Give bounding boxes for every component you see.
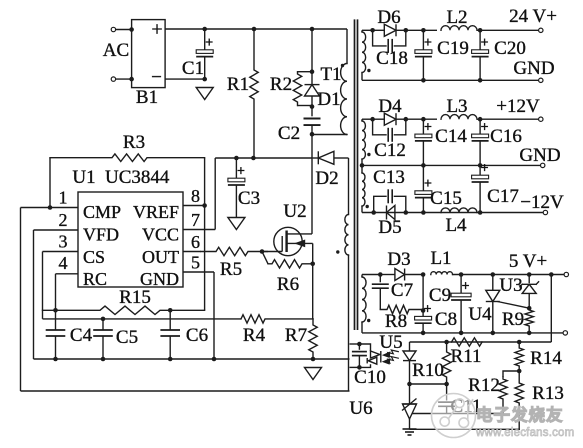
resistor R5 <box>201 247 262 255</box>
wire feedback drop <box>550 275 552 343</box>
node R15 C6 <box>168 308 173 313</box>
capacitor C17 <box>479 165 481 175</box>
svg-text:D5: D5 <box>378 217 401 238</box>
capacitor C3 <box>235 158 237 178</box>
svg-text:5 V+: 5 V+ <box>509 251 547 272</box>
watermark logo <box>432 394 476 438</box>
svg-text:C18: C18 <box>376 48 408 69</box>
svg-text:6: 6 <box>191 232 200 252</box>
svg-text:D2: D2 <box>315 168 338 189</box>
node rail C4 <box>53 357 58 362</box>
svg-text:C1: C1 <box>182 58 204 79</box>
svg-text:L3: L3 <box>446 96 467 117</box>
AC input terminal bottom <box>111 77 115 81</box>
svg-text:U1: U1 <box>72 167 95 188</box>
capacitor C9 <box>460 275 462 294</box>
T1 sec12 winding A <box>361 119 363 121</box>
node R8 right <box>421 308 426 313</box>
svg-text:C6: C6 <box>186 325 208 346</box>
svg-text:24 V+: 24 V+ <box>509 6 557 27</box>
diode D1 <box>311 72 313 85</box>
wire primary bottom <box>312 134 347 136</box>
node R6 right <box>310 262 315 267</box>
T1 sec12 phase dot A <box>367 153 370 156</box>
wire R3 left leg <box>49 158 51 208</box>
svg-text:+: + <box>151 19 162 41</box>
wire CMP feedback <box>21 390 350 392</box>
wire top rail <box>165 28 347 30</box>
inductor L3 <box>441 115 477 120</box>
capacitor C5 <box>102 319 104 330</box>
wire pin8 <box>183 205 205 207</box>
wire pin3 <box>43 251 79 253</box>
resistor R13 <box>515 371 523 429</box>
diode D4 <box>373 118 385 120</box>
svg-text:C2: C2 <box>278 123 300 144</box>
svg-text:C13: C13 <box>373 167 405 188</box>
svg-text:U6: U6 <box>349 398 372 419</box>
watermark text <box>475 405 574 440</box>
wire 24V rail b <box>477 29 539 31</box>
resistor R10 <box>442 342 450 384</box>
svg-text:R9: R9 <box>502 309 524 330</box>
node clamp bottom <box>310 132 315 137</box>
svg-text:C20: C20 <box>494 38 526 59</box>
T1 primary winding <box>346 29 348 64</box>
node top rail clamp <box>310 27 315 32</box>
svg-text:+: + <box>481 119 489 134</box>
svg-text:VCC: VCC <box>142 225 179 245</box>
T1 aux winding <box>345 215 349 256</box>
svg-text:R7: R7 <box>285 325 307 346</box>
svg-text:+12V: +12V <box>496 96 540 117</box>
resistor R4 <box>241 315 313 323</box>
transistor U2 <box>274 227 302 255</box>
diode D5 <box>386 206 388 220</box>
wire VCC line <box>215 157 313 159</box>
svg-text:GND: GND <box>519 145 560 166</box>
svg-text:C3: C3 <box>238 188 260 209</box>
wire +12 rail b <box>477 118 539 120</box>
diode D6 <box>373 29 385 31</box>
svg-text:C10: C10 <box>354 367 386 388</box>
shunt reg U6 <box>409 384 411 404</box>
ground U6 <box>403 428 417 430</box>
photodiode U5 out <box>409 342 411 351</box>
node divider <box>517 369 522 374</box>
wire 24V gnd rail <box>361 73 363 81</box>
capacitor C14 <box>422 119 424 134</box>
svg-text:D4: D4 <box>378 96 402 117</box>
diode D2 <box>313 157 318 159</box>
wire sense line <box>410 341 552 343</box>
inductor L1 <box>431 272 453 275</box>
capacitor C16 <box>479 119 481 134</box>
wire aux bottom <box>348 255 350 391</box>
wire aux top to D2 <box>348 158 350 215</box>
svg-text:C12: C12 <box>374 140 406 161</box>
wire pin4 <box>56 273 79 275</box>
wire AC bottom to bridge <box>116 78 132 80</box>
capacitor C2 <box>311 107 313 117</box>
wire drain <box>311 134 313 234</box>
svg-text:www.elecfans.com: www.elecfans.com <box>475 427 574 439</box>
svg-text:T1: T1 <box>320 64 341 85</box>
wire 12V gnd rail <box>362 164 541 166</box>
node rail R7 <box>311 357 316 362</box>
node R15 left <box>53 308 58 313</box>
capacitor C10 <box>358 344 360 350</box>
node clamp mid <box>310 104 315 109</box>
svg-text:+: + <box>237 163 245 178</box>
node VCC C3 <box>234 156 239 161</box>
svg-text:R11: R11 <box>451 346 482 367</box>
svg-text:CS: CS <box>83 247 105 267</box>
node clamp top <box>310 69 315 74</box>
wire source <box>312 243 314 319</box>
resistor R7 <box>309 319 317 359</box>
capacitor C4 <box>55 310 57 330</box>
svg-text:5: 5 <box>191 253 200 273</box>
ground at R7 <box>305 368 322 380</box>
wire R12 jog <box>503 371 519 377</box>
T1 aux phase dot <box>336 250 339 253</box>
svg-text:2: 2 <box>59 210 68 230</box>
svg-text:R10: R10 <box>412 360 444 381</box>
resistor R12 <box>499 377 507 414</box>
svg-text:R15: R15 <box>119 287 151 308</box>
resistor R15 <box>43 306 205 314</box>
svg-text:−12V: −12V <box>520 192 564 213</box>
resistor R1 <box>250 29 258 158</box>
svg-text:R3: R3 <box>123 132 145 153</box>
svg-text:+: + <box>205 35 213 50</box>
T1 sec5 phase dot <box>367 319 370 322</box>
svg-text:R2: R2 <box>270 74 292 95</box>
resistor R6 <box>262 252 268 264</box>
node photo out <box>407 382 412 387</box>
T1 sec12 winding B <box>362 173 365 206</box>
svg-text:4: 4 <box>59 253 68 273</box>
wire ref line <box>412 413 503 415</box>
svg-text:UC3844: UC3844 <box>105 167 170 188</box>
capacitor C19 <box>422 30 424 50</box>
svg-text:+: + <box>481 160 489 175</box>
svg-text:C16: C16 <box>490 126 522 147</box>
svg-text:D6: D6 <box>377 7 400 28</box>
resistor R9 <box>525 308 533 333</box>
svg-text:R1: R1 <box>227 74 249 95</box>
T1 sec24 phase dot <box>367 69 370 72</box>
svg-text:GND: GND <box>513 58 554 79</box>
wire -12 rail <box>362 212 543 214</box>
svg-text:1: 1 <box>59 188 68 208</box>
resistor R2 <box>298 71 313 73</box>
optocoupler arrows <box>384 350 398 356</box>
capacitor C1 <box>204 29 206 50</box>
node rail C6 <box>168 357 173 362</box>
wire C10 links <box>350 343 360 345</box>
wire 5V gnd rail <box>362 332 563 334</box>
svg-text:L4: L4 <box>445 215 467 236</box>
thyristor U4 <box>492 275 494 291</box>
svg-text:R12: R12 <box>468 375 500 396</box>
svg-text:R4: R4 <box>243 325 266 346</box>
svg-text:C8: C8 <box>435 309 457 330</box>
wire pin6 <box>183 251 201 253</box>
node rail C5 <box>101 357 106 362</box>
wire U6 top line <box>410 383 447 385</box>
svg-text:C14: C14 <box>435 126 467 147</box>
svg-text:R14: R14 <box>530 348 562 369</box>
capacitor C18 snubber <box>373 30 387 46</box>
capacitor C13 snubber <box>374 196 387 212</box>
svg-text:C5: C5 <box>116 327 138 348</box>
T1 sec12 phase dot B <box>366 205 369 208</box>
svg-text:R5: R5 <box>220 259 242 280</box>
svg-text:+: + <box>424 35 432 50</box>
node rail pin5 <box>212 357 217 362</box>
wire sec24 top <box>362 29 373 31</box>
inductor L4 <box>441 208 477 213</box>
svg-text:VREF: VREF <box>133 202 179 222</box>
resistor R11 <box>452 338 483 346</box>
svg-text:GND: GND <box>140 269 179 289</box>
svg-text:C19: C19 <box>437 38 469 59</box>
wire clamp top <box>311 29 313 72</box>
wire pin2 <box>34 229 79 231</box>
AC input terminal top <box>111 27 115 31</box>
capacitor C15 <box>422 165 424 190</box>
svg-text:AC: AC <box>103 40 129 61</box>
wire sec5 top <box>362 274 380 276</box>
svg-text:D3: D3 <box>387 249 410 270</box>
svg-text:8: 8 <box>191 186 200 206</box>
capacitor C12 snubber <box>373 119 387 135</box>
resistor R3 <box>50 154 205 162</box>
svg-text:U4: U4 <box>468 304 492 325</box>
svg-text:OUT: OUT <box>142 247 179 267</box>
node top rail R1 <box>252 27 257 32</box>
transformer core <box>354 19 356 330</box>
node R10 bottom <box>444 382 449 387</box>
svg-text:R13: R13 <box>532 383 564 404</box>
optocoupler U5 led <box>357 342 362 347</box>
wire AC top to bridge <box>116 29 132 31</box>
capacitor C7 <box>379 275 381 283</box>
wire pin7 <box>183 229 215 231</box>
svg-text:L2: L2 <box>446 7 467 28</box>
wire U4 gate <box>498 302 530 309</box>
wire 5V rail <box>453 274 565 276</box>
svg-text:+: + <box>462 278 470 293</box>
terminal +12V <box>539 117 543 121</box>
wire CS line <box>43 318 242 320</box>
svg-text:C15: C15 <box>430 188 462 209</box>
ground after C3 <box>228 218 245 230</box>
resistor R8 <box>380 305 423 313</box>
svg-text:R6: R6 <box>277 274 299 295</box>
wire bottom gnd line <box>410 428 521 430</box>
svg-text:C17: C17 <box>487 186 519 207</box>
capacitor C8 <box>422 275 424 317</box>
svg-text:U3: U3 <box>499 275 522 296</box>
svg-text:3: 3 <box>59 232 68 252</box>
svg-text:C7: C7 <box>391 280 413 301</box>
svg-text:L1: L1 <box>430 248 451 269</box>
ground after C1 <box>196 88 213 100</box>
svg-text:C9: C9 <box>429 285 451 306</box>
node top rail C1 <box>202 27 207 32</box>
svg-text:R8: R8 <box>385 311 407 332</box>
svg-text:+: + <box>424 119 432 134</box>
wire ground rail <box>34 358 350 360</box>
T1 sec24 winding <box>361 30 363 32</box>
op-amp U1 UC3844 box <box>78 192 183 287</box>
terminal 24V GND <box>539 78 543 82</box>
wire gate <box>262 251 268 253</box>
wire +12 rail a <box>406 118 437 120</box>
terminal 5V GND <box>563 331 567 335</box>
svg-text:电子发烧友: 电子发烧友 <box>476 405 564 425</box>
capacitor C20 <box>479 30 481 50</box>
svg-text:VFD: VFD <box>83 225 119 245</box>
wire pin5 <box>183 271 214 273</box>
wire bridge minus to C1 <box>165 78 205 80</box>
zener U3 <box>528 275 530 284</box>
wire VCC drop <box>214 158 216 230</box>
terminal -12V <box>543 210 547 214</box>
T1 sec5 winding <box>361 275 363 278</box>
svg-text:7: 7 <box>191 210 200 230</box>
svg-text:+: + <box>481 35 489 50</box>
resistor R14 <box>515 342 523 371</box>
terminal GND 12V <box>541 163 545 167</box>
svg-text:CMP: CMP <box>83 202 121 222</box>
wire sec12 top <box>362 118 373 120</box>
node VCC R1 <box>251 156 256 161</box>
terminal 24V+ <box>539 28 543 32</box>
capacitor C6 <box>169 310 171 330</box>
svg-text:U2: U2 <box>283 201 306 222</box>
wire R3 right leg <box>204 158 206 311</box>
T1 primary phase dot <box>341 64 344 67</box>
svg-text:B1: B1 <box>136 87 158 108</box>
svg-text:D1: D1 <box>317 89 340 110</box>
svg-text:RC: RC <box>83 269 107 289</box>
diode D3 <box>380 274 395 276</box>
node gate <box>260 249 265 254</box>
capacitor C11 <box>446 384 448 401</box>
wire 24V rail a <box>406 29 437 31</box>
inductor L2 <box>441 26 477 31</box>
svg-text:−: − <box>151 67 162 88</box>
terminal 5V+ <box>564 272 568 276</box>
bridge rectifier B1 <box>132 20 166 88</box>
wire pin1 <box>21 207 79 209</box>
svg-text:C4: C4 <box>70 325 93 346</box>
